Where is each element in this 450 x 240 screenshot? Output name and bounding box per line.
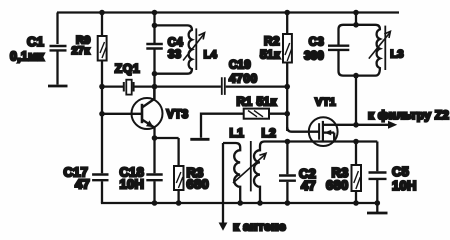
svg-text:L1: L1 <box>230 126 245 140</box>
wire tank2 left loop <box>339 25 357 76</box>
node junction R1 / R2 rail <box>284 111 290 117</box>
node junction tank2 bottom <box>353 73 359 79</box>
arrow to antenna <box>219 223 228 231</box>
node junction C5 to ground rail <box>375 200 381 206</box>
wire VT1 drain output line <box>337 124 389 126</box>
wire emitter to R3 top <box>155 137 179 139</box>
node junction L2 to ground rail <box>257 200 263 206</box>
svg-text:к фильтру Z2: к фильтру Z2 <box>368 108 449 122</box>
wire antenna drop <box>222 143 224 223</box>
node junction R3 to ground rail <box>353 200 359 206</box>
svg-text:R2: R2 <box>264 34 280 48</box>
node junction source / C2 <box>285 139 291 145</box>
svg-text:VT1: VT1 <box>315 97 336 109</box>
resistor R2 <box>283 13 292 132</box>
svg-text:33: 33 <box>168 49 181 61</box>
L3 tuning arrow <box>369 31 391 58</box>
svg-text:10Н: 10Н <box>392 178 417 193</box>
svg-text:51к: 51к <box>257 95 278 109</box>
node junction tank1 top <box>152 23 158 29</box>
svg-text:C3: C3 <box>309 37 324 49</box>
svg-text:47: 47 <box>301 178 316 193</box>
node junction rail to VT3 base <box>99 111 105 117</box>
inductor L4 <box>155 25 192 73</box>
svg-text:27к: 27к <box>72 45 91 57</box>
crystal ZQ1 <box>102 80 155 95</box>
node junction collector / ZQ1 / C19 <box>152 84 158 90</box>
svg-text:0,1мк: 0,1мк <box>10 50 45 64</box>
resistor R9 <box>98 36 107 61</box>
node junction rail to ZQ1 <box>99 84 105 90</box>
capacitor C19 <box>222 77 225 95</box>
transistor VT1 (MOSFET) <box>309 117 338 146</box>
L1-L2 common core line <box>250 141 252 191</box>
node junction top of R9 <box>99 10 105 16</box>
node junction top rail to R2 <box>284 10 290 16</box>
node junction tank1 bottom <box>152 71 158 77</box>
resistor R3 (emitter) <box>174 138 184 203</box>
inductor L3 <box>356 25 380 76</box>
L4 adjustable core line <box>195 28 197 70</box>
inductor L1 <box>223 143 240 203</box>
wire collector node to C19 <box>155 85 221 87</box>
capacitor C5 <box>369 142 387 204</box>
wire tank2 vertical branch <box>355 13 357 125</box>
ground chassis bar under R1 <box>190 138 209 141</box>
inductor L2 <box>254 142 265 204</box>
svg-text:47: 47 <box>75 176 90 191</box>
svg-text:ZQ1: ZQ1 <box>115 62 140 76</box>
L3 adjustable core line <box>384 26 386 70</box>
ground chassis bar under C1 <box>48 85 68 88</box>
wire left rail (VT3 base net) <box>101 13 103 204</box>
svg-text:C5: C5 <box>392 164 409 179</box>
svg-text:680: 680 <box>187 177 209 192</box>
svg-text:C1: C1 <box>27 34 44 49</box>
node junction C2 to ground rail <box>285 200 291 206</box>
node junction source / R3 <box>353 139 359 145</box>
capacitor C1 <box>50 13 67 85</box>
node junction C18 to ground rail <box>152 200 158 206</box>
svg-text:L2: L2 <box>262 126 277 140</box>
capacitor C18 <box>146 175 162 181</box>
node junction VT3 emitter <box>152 135 158 141</box>
node junction R2 / C19 <box>284 84 290 90</box>
wire gate bend into VT1 <box>287 127 319 132</box>
wire tank1 vertical branch <box>153 13 155 100</box>
node junction L1 to ground rail <box>237 200 243 206</box>
wire emitter down through C18 <box>153 138 155 203</box>
capacitor C3 <box>328 46 349 50</box>
wire bottom ground rail <box>101 202 377 204</box>
ground chassis bar bottom right <box>367 203 388 213</box>
node junction top rail to tank2 <box>353 10 359 16</box>
svg-text:R1: R1 <box>237 95 253 109</box>
capacitor C2 <box>279 142 296 204</box>
wire VT1 source line <box>265 140 378 142</box>
L1-L2 coupling arrow <box>233 153 266 183</box>
resistor R3 (source) <box>352 142 362 204</box>
arrow to filter Z2 <box>388 121 397 129</box>
svg-text:к антене: к антене <box>233 220 286 234</box>
resistor R1 <box>201 109 287 138</box>
svg-text:390: 390 <box>304 51 324 63</box>
capacitor C17 <box>92 175 108 181</box>
node junction tank2 top <box>353 22 359 28</box>
wire top supply rail <box>57 11 399 13</box>
wire C19 to R2 node <box>226 85 288 87</box>
svg-text:VT3: VT3 <box>167 109 189 121</box>
svg-text:4700: 4700 <box>229 71 258 85</box>
svg-text:C19: C19 <box>229 59 251 71</box>
node junction R3 to ground rail <box>176 200 182 206</box>
node junction drain / tank2 <box>353 122 359 128</box>
svg-text:10Н: 10Н <box>120 176 145 191</box>
L4 tuning arrow <box>183 33 205 61</box>
capacitor C4 <box>146 44 163 49</box>
svg-text:680: 680 <box>326 178 348 193</box>
svg-text:L3: L3 <box>390 48 403 60</box>
transistor VT3 (NPN) <box>102 87 163 138</box>
svg-text:51к: 51к <box>260 48 281 62</box>
svg-text:C4: C4 <box>168 37 184 49</box>
svg-text:L4: L4 <box>204 49 218 61</box>
node junction top rail to tank1 <box>152 10 158 16</box>
